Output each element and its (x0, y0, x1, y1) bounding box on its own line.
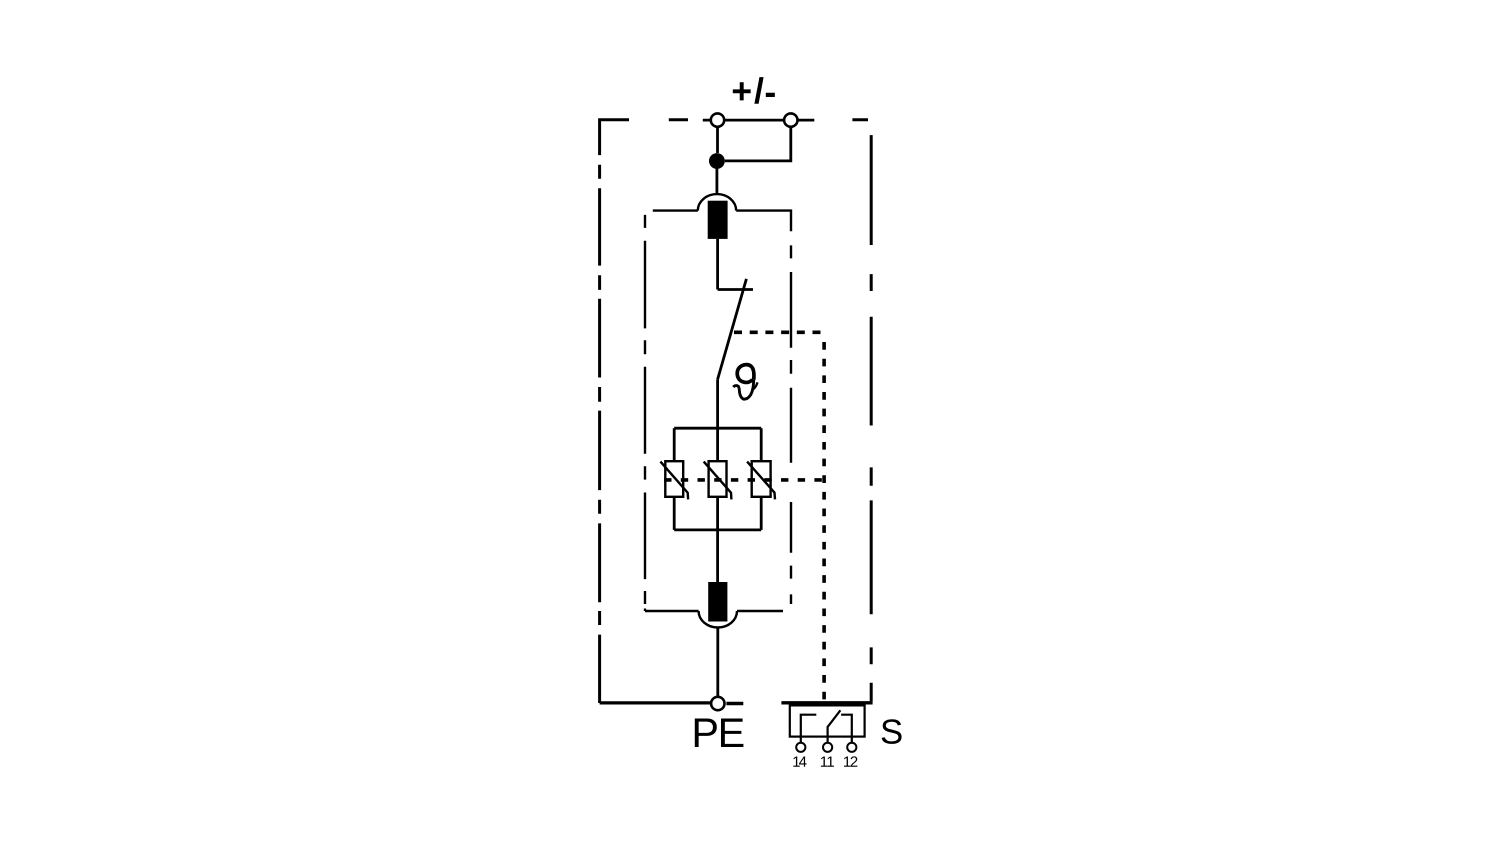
inner module box: top edge with arc cutout (653, 209, 698, 211)
label PE (695, 719, 717, 747)
outer enclosure border: top-left corner (600, 120, 629, 155)
signal dashed line: switch to S box (horizontal) (734, 330, 827, 334)
terminal X2 open circle (right) (784, 113, 797, 126)
outer enclosure border: right edge dash-dot (870, 135, 873, 701)
wire: F2 to PE terminal (716, 627, 719, 696)
signal dashed line: vertical run to S box (822, 342, 826, 700)
varistor bank: center lower (716, 497, 719, 530)
label 12 (844, 757, 850, 767)
terminal 12 circle (847, 743, 856, 752)
varistor bank: left branch lower (673, 497, 676, 530)
wire: right terminal drop and cross-link (725, 127, 791, 161)
wire: switch to varistor stack (716, 379, 719, 428)
disconnector F2 arc (thermal disconnect dome) (699, 611, 737, 628)
thermal switch blade (open) (718, 279, 747, 380)
varistor bank: top rail (674, 427, 761, 430)
outer enclosure border: bottom-right thick segment (781, 701, 872, 704)
disconnector F1 body (filled rectangle) (708, 201, 728, 239)
terminal X1 open circle (left) (711, 113, 724, 126)
outer enclosure border: left edge dash-dot (598, 165, 601, 703)
contact 14 lead (801, 715, 817, 743)
varistor RU1 diagonal (660, 462, 688, 500)
terminal 14 circle (796, 743, 805, 752)
disconnector F1 arc (thermal disconnect dome) (698, 194, 736, 211)
inner module box: left edge dash-dot (644, 215, 646, 611)
label 11 (821, 757, 827, 767)
varistor RU1 body (665, 461, 683, 497)
wire: junction down to disconnector F1 (716, 168, 719, 195)
thermal switch fixed contact tick (718, 288, 753, 291)
outer enclosure border: bottom-left edge to PE (600, 701, 711, 704)
PE terminal stub right (726, 702, 743, 705)
wire: left terminal drop to junction (716, 127, 719, 153)
varistor RU3 body (752, 461, 771, 497)
outer enclosure border: top edge dashes (669, 118, 868, 121)
junction node (filled dot) (709, 153, 725, 169)
inner module box: right edge dash-dot (790, 245, 792, 604)
varistor bank: center riser (716, 428, 719, 461)
varistor bank: right branch lower (760, 497, 763, 530)
inner module box: bottom edge with arc cutout (645, 610, 699, 612)
varistor bank: bottom rail (674, 529, 761, 532)
terminal 11 circle (823, 743, 832, 752)
wire: varistor bank to disconnector F2 (716, 530, 719, 582)
label 14 (793, 757, 799, 767)
signal dashed line: varistor midline (horizontal) (664, 478, 823, 482)
varistor RU2 body (709, 461, 727, 497)
disconnector F2 body (filled rectangle) (708, 582, 727, 622)
label S (882, 719, 902, 744)
varistor RU3 diagonal (747, 462, 775, 500)
thermal sensor symbol (theta) (733, 365, 757, 400)
contact 11 lead with blade (828, 710, 841, 743)
contact 12 lead (841, 715, 852, 743)
PE terminal open circle (711, 697, 724, 710)
wire: F1 to thermal switch (716, 239, 719, 290)
remote contact box S (790, 705, 865, 736)
varistor bank: left branch riser (673, 428, 676, 461)
varistor RU2 diagonal (704, 462, 732, 500)
wire: top terminal rail (703, 119, 815, 122)
varistor bank: right branch riser (760, 428, 763, 461)
label +/- (733, 82, 751, 100)
